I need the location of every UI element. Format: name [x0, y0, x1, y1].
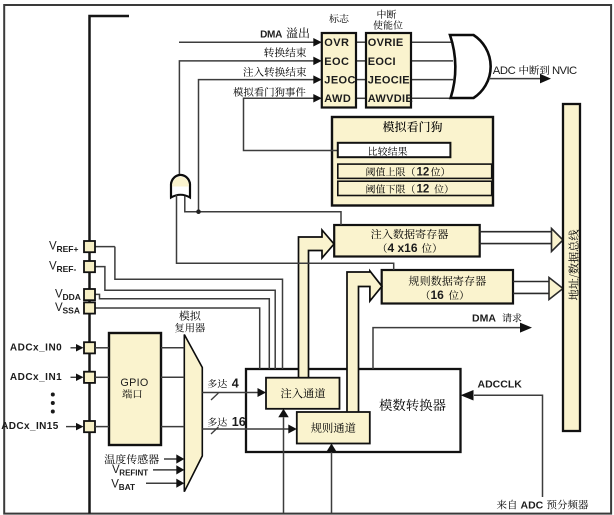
- svg-text:AWD: AWD: [324, 93, 351, 105]
- left supply rail: [90, 16, 130, 514]
- svg-text:4: 4: [232, 377, 239, 391]
- injected data register box: [334, 225, 480, 257]
- svg-text:ADCCLK: ADCCLK: [478, 378, 523, 390]
- label flags: [329, 14, 338, 23]
- wires enable box to OR gate: [411, 41, 453, 43]
- svg-text:SSA: SSA: [63, 306, 80, 316]
- GPIO port box: [109, 333, 161, 445]
- svg-text:REFINT: REFINT: [119, 469, 148, 478]
- small OR gate U2 (EOC merge): [171, 175, 190, 198]
- svg-text:12: 12: [417, 167, 430, 179]
- block arrow regular channels to regular data register: [347, 271, 382, 413]
- svg-text:NVIC: NVIC: [552, 65, 577, 77]
- ADCCLK wire: [474, 395, 543, 497]
- label from ADC prescaler: [497, 500, 507, 510]
- wire JEOC to flag: [199, 80, 314, 212]
- svg-text:ADC: ADC: [493, 65, 516, 77]
- svg-text:OVR: OVR: [324, 37, 349, 49]
- label interrupt enable bits: [378, 10, 386, 19]
- ADC converter box: [246, 369, 461, 452]
- analog mux trapezoid: [184, 335, 202, 492]
- label analog mux: [179, 311, 190, 321]
- svg-text:4 x16: 4 x16: [388, 241, 418, 255]
- ellipsis dots: [51, 393, 55, 397]
- svg-text:REF-: REF-: [57, 264, 77, 274]
- svg-text:16: 16: [431, 288, 445, 302]
- svg-text:EOCI: EOCI: [368, 56, 396, 68]
- svg-text:JEOC: JEOC: [324, 75, 356, 87]
- wire EOC net from regular data register: [177, 195, 394, 270]
- wire AWD into compare result (over box fill): [331, 150, 339, 152]
- regular data register box: [382, 270, 513, 304]
- mux output up to 4 wire: [202, 392, 258, 394]
- label end of injected conversion: [243, 67, 253, 77]
- label address/data bus (vertical): [568, 230, 579, 300]
- svg-text:AWVDIE: AWVDIE: [368, 93, 413, 105]
- regular trigger wire from bottom: [331, 452, 333, 514]
- svg-text:GPIO: GPIO: [120, 377, 148, 389]
- svg-text:ADCx_IN1: ADCx_IN1: [10, 372, 62, 383]
- junction dot JEOC: [196, 209, 201, 214]
- svg-text:OVRIE: OVRIE: [368, 37, 404, 49]
- wire EOC to flag (from small OR gate): [179, 61, 313, 174]
- bus output arrow from regular data register: [513, 281, 550, 283]
- DMA request wire: [373, 328, 520, 369]
- flag register box: [322, 33, 356, 108]
- mux output up to 16 wire: [202, 428, 289, 430]
- bus output arrow from injected data register: [480, 231, 553, 233]
- svg-text:ADCx_IN0: ADCx_IN0: [10, 342, 62, 353]
- wire DMA overflow to OVR: [179, 41, 314, 43]
- low threshold box: [338, 181, 492, 195]
- svg-text:ADC: ADC: [521, 500, 544, 512]
- temperature sensor input: [105, 454, 115, 464]
- arrowheads into flag box: [313, 38, 322, 47]
- wire JEOC net from injected data register: [185, 196, 341, 225]
- injected trigger wire from bottom: [283, 417, 285, 513]
- wire ADC interrupt to NVIC: [489, 78, 543, 80]
- address/data bus bar: [563, 104, 580, 431]
- svg-text:DMA: DMA: [472, 313, 496, 325]
- wires GPIO to mux: [161, 347, 184, 349]
- OR gate U1 interrupt: [450, 35, 491, 98]
- svg-text:BAT: BAT: [119, 483, 135, 492]
- svg-text:JEOCIE: JEOCIE: [368, 75, 410, 87]
- svg-text:ADCx_IN15: ADCx_IN15: [1, 421, 59, 432]
- connector wires flag box to enable box: [356, 41, 366, 43]
- svg-text:EOC: EOC: [324, 56, 349, 68]
- analog watchdog box: [332, 117, 493, 206]
- label analog watchdog event: [233, 87, 243, 97]
- svg-text:DDA: DDA: [63, 292, 81, 302]
- compare result box: [338, 143, 451, 157]
- block arrow injected channels to injected data register: [299, 230, 335, 379]
- svg-text:12: 12: [417, 184, 430, 196]
- wire AWD event to flag: [244, 98, 338, 150]
- svg-text:REF+: REF+: [57, 244, 79, 254]
- interrupt enable box: [366, 33, 411, 108]
- high threshold box: [338, 164, 492, 178]
- regular channels box: [297, 412, 370, 444]
- svg-text:16: 16: [232, 415, 246, 429]
- injected channels box: [266, 378, 340, 409]
- label end of conversion: [264, 47, 274, 57]
- svg-text:DMA: DMA: [260, 29, 282, 40]
